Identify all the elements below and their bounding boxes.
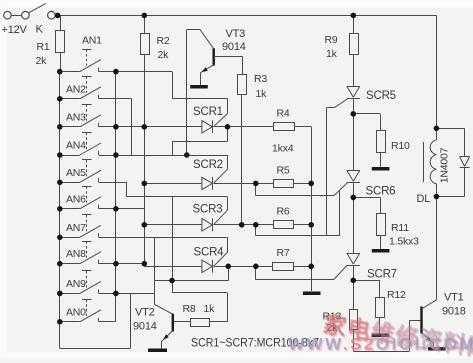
svg-text:DL: DL <box>417 193 431 205</box>
svg-text:SCR7: SCR7 <box>367 269 397 281</box>
svg-text:1.5kx3: 1.5kx3 <box>389 236 419 248</box>
svg-text:AN3: AN3 <box>66 111 86 123</box>
svg-text:WWW.S2OIOI.COM: WWW.S2OIOI.COM <box>288 335 473 354</box>
svg-text:+12V: +12V <box>2 24 28 36</box>
svg-text:9014: 9014 <box>133 321 157 333</box>
svg-text:SCR1: SCR1 <box>193 106 223 118</box>
svg-text:R7: R7 <box>277 247 290 259</box>
svg-text:2k: 2k <box>158 49 170 61</box>
svg-text:R11: R11 <box>391 222 409 234</box>
svg-text:R5: R5 <box>277 165 290 177</box>
svg-text:R10: R10 <box>391 140 410 152</box>
svg-text:AN9: AN9 <box>66 278 86 290</box>
svg-text:AN2: AN2 <box>66 83 86 95</box>
svg-text:AN7: AN7 <box>66 222 86 234</box>
svg-text:R2: R2 <box>157 35 170 47</box>
svg-text:K: K <box>36 24 44 36</box>
svg-text:AN5: AN5 <box>66 167 86 179</box>
svg-text:SCR4: SCR4 <box>194 247 225 259</box>
svg-text:SCR2: SCR2 <box>193 159 223 171</box>
svg-text:SCR5: SCR5 <box>366 90 396 102</box>
svg-text:R9: R9 <box>325 34 338 46</box>
svg-text:AN1: AN1 <box>82 35 102 47</box>
svg-text:AN0: AN0 <box>66 306 86 318</box>
svg-text:9014: 9014 <box>222 41 246 53</box>
svg-text:1N4007: 1N4007 <box>439 147 451 183</box>
svg-text:R3: R3 <box>254 73 267 85</box>
svg-text:R6: R6 <box>277 206 290 218</box>
svg-text:SCR3: SCR3 <box>193 204 223 216</box>
svg-text:2k: 2k <box>36 55 48 67</box>
svg-text:AN6: AN6 <box>66 193 86 205</box>
svg-text:AN4: AN4 <box>66 140 86 152</box>
svg-text:1k: 1k <box>256 88 268 100</box>
svg-text:1kx4: 1kx4 <box>272 143 294 155</box>
svg-text:VT3: VT3 <box>226 28 246 40</box>
svg-text:R4: R4 <box>277 108 290 120</box>
svg-text:9018: 9018 <box>442 306 466 318</box>
svg-text:R8: R8 <box>183 303 196 315</box>
svg-text:R12: R12 <box>387 289 406 301</box>
svg-text:VT2: VT2 <box>135 307 155 319</box>
svg-text:SCR6: SCR6 <box>366 186 396 198</box>
svg-text:R1: R1 <box>37 41 50 53</box>
svg-text:1k: 1k <box>204 303 216 315</box>
svg-text:1k: 1k <box>326 48 338 60</box>
svg-text:AN8: AN8 <box>66 248 86 260</box>
svg-text:VT1: VT1 <box>444 292 464 304</box>
